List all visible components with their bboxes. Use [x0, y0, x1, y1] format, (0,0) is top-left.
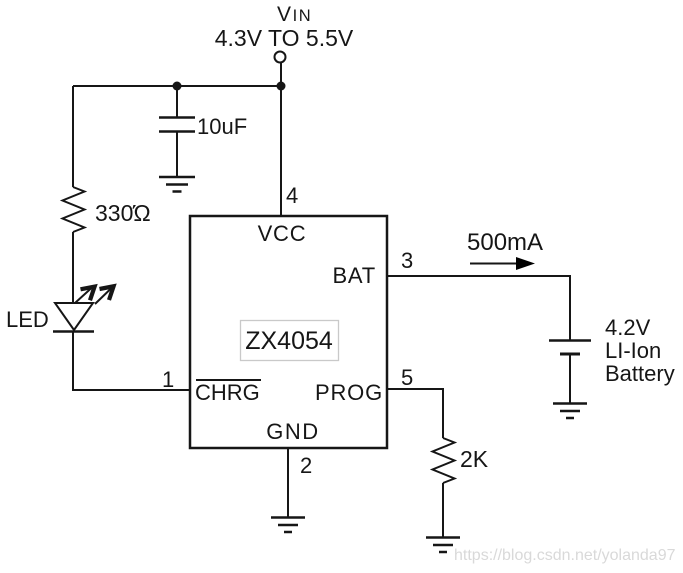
svg-text:VCC: VCC [258, 221, 307, 246]
battery label 4.2V LI-Ion Battery [605, 315, 675, 386]
svg-text:PROG: PROG [315, 380, 383, 405]
VIN input terminal circle [275, 52, 286, 63]
net label VIN [277, 3, 312, 26]
battery BT1 plates [549, 341, 591, 355]
wire VIN terminal down to VCC pin 4 [280, 63, 282, 217]
IC U1 ZX4054 body [190, 216, 387, 448]
svg-text:4.2V: 4.2V [605, 315, 651, 340]
ground (R2) [426, 538, 460, 553]
pin number 3 [401, 248, 413, 273]
svg-text:330Ώ: 330Ώ [95, 200, 151, 226]
wire capacitor branch [176, 86, 178, 117]
LED light emission arrows [75, 286, 114, 304]
svg-text:LED: LED [6, 307, 49, 332]
wire R2 to ground [442, 483, 444, 537]
svg-text:4: 4 [286, 183, 298, 208]
wire GND pin 2 to ground [287, 448, 289, 517]
svg-text:1: 1 [162, 367, 174, 392]
pin number 5 [401, 365, 413, 390]
VIN voltage range label [215, 25, 354, 51]
svg-text:2: 2 [300, 453, 312, 478]
watermark [454, 547, 676, 564]
wire LED to CHRG pin 1 [73, 332, 190, 390]
resistor R2 2K zigzag [433, 438, 455, 483]
LED cathode bar [53, 330, 94, 333]
wire BAT pin 3 to battery [387, 276, 570, 340]
svg-text:500mA: 500mA [467, 229, 543, 256]
resistor R1 330 ohm zigzag [63, 187, 85, 232]
pin name PROG [315, 380, 383, 405]
svg-text:2K: 2K [460, 446, 489, 472]
pin name CHRG with overline [195, 380, 261, 405]
svg-text:CHRG: CHRG [195, 380, 260, 405]
wire capacitor to ground [176, 131, 178, 177]
wire PROG pin 5 to resistor R2 [387, 389, 443, 438]
ground (capacitor) [159, 177, 195, 192]
wire battery to ground [569, 354, 571, 403]
label LED [6, 307, 49, 332]
LED D1 triangle [55, 303, 93, 330]
svg-text:GND: GND [266, 419, 319, 444]
resistor value 2K [460, 446, 489, 472]
pin name VCC [258, 221, 307, 246]
capacitor value 10uF [197, 114, 247, 139]
pin number 1 [162, 367, 174, 392]
svg-text:LI-Ion: LI-Ion [605, 338, 661, 363]
svg-text:Battery: Battery [605, 361, 675, 386]
ground (IC GND) [271, 518, 305, 533]
svg-text:4.3V TO 5.5V: 4.3V TO 5.5V [215, 25, 354, 51]
svg-text:3: 3 [401, 248, 413, 273]
svg-text:VIN: VIN [277, 3, 312, 26]
svg-text:5: 5 [401, 365, 413, 390]
node junction at VIN wire [277, 82, 286, 91]
capacitor C1 plates [159, 118, 195, 132]
wire top horizontal [73, 85, 281, 87]
current label 500mA [467, 229, 543, 256]
svg-text:ZX4054: ZX4054 [245, 327, 333, 355]
pin name GND [266, 419, 319, 444]
IC part label box ZX4054 [241, 321, 339, 361]
pin name BAT [332, 263, 376, 288]
pin number 4 [286, 183, 298, 208]
wire resistor to LED [72, 232, 74, 303]
node junction capacitor branch [173, 82, 182, 91]
svg-text:10uF: 10uF [197, 114, 247, 139]
svg-text:https://blog.csdn.net/yolanda9: https://blog.csdn.net/yolanda97 [454, 547, 676, 564]
wire left vertical from top corner to resistor [72, 86, 74, 187]
current direction arrow [470, 257, 535, 270]
resistor value 330 ohm [95, 200, 151, 226]
ground (battery) [553, 404, 587, 419]
svg-text:BAT: BAT [332, 263, 376, 288]
pin number 2 [300, 453, 312, 478]
